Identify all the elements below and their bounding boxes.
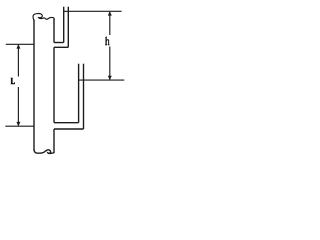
label h [105,36,110,45]
label L [10,78,15,84]
L dimension arrow upper segment [17,45,19,77]
pipe left wall [33,20,35,151]
L dimension arrowhead down [16,122,20,126]
L dimension arrow lower segment [17,87,19,126]
pipe right wall middle segment [53,47,55,122]
upper tap top edge [54,42,64,44]
lower piezometer tube inner wall [78,64,80,123]
h dimension arrow upper segment [109,12,111,35]
lower tap top edge [54,122,79,124]
upper piezometer tube outer wall [67,7,69,48]
lower liquid level line [79,79,125,81]
upper liquid level line [64,10,122,12]
pipe top break squiggle [33,14,54,21]
L dimension arrowhead up [16,44,20,48]
pipe right wall upper segment [53,19,55,43]
h dimension arrow lower segment [109,47,111,80]
lower tap bottom edge [54,128,84,130]
pipe right wall lower segment [53,129,55,153]
L dimension bottom reference line [5,125,34,127]
upper piezometer tube inner wall [63,7,65,43]
pipe bottom break squiggle [34,150,54,154]
lower piezometer tube outer wall [83,64,85,129]
h dimension arrowhead down [108,76,112,80]
L dimension top reference line [6,43,35,45]
h dimension arrowhead up [108,11,112,15]
upper tap bottom edge [54,46,68,48]
